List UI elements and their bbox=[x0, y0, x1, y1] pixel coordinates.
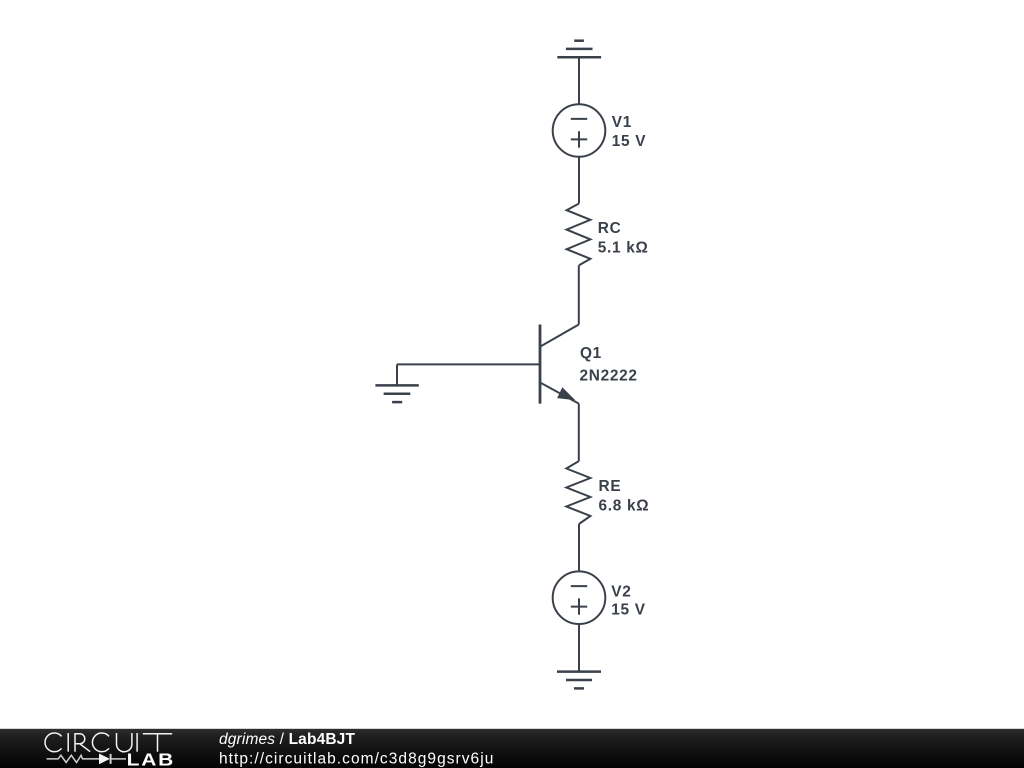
label V1 15 V bbox=[612, 114, 646, 150]
footer logo CIRCUIT wordmark bbox=[45, 733, 172, 752]
wire Q1 emitter to RE bbox=[578, 404, 580, 461]
wire top ground to V1 bbox=[578, 57, 580, 104]
Q1 emitter arrowhead bbox=[557, 387, 575, 400]
svg-text:5.1 kΩ: 5.1 kΩ bbox=[598, 240, 649, 257]
footer bar bbox=[0, 729, 1024, 768]
svg-text:V1: V1 bbox=[612, 114, 632, 131]
svg-text:Q1: Q1 bbox=[580, 345, 602, 362]
ground bottom (net GND) bbox=[557, 672, 601, 689]
wire RC to Q1 collector bbox=[578, 265, 580, 324]
label Q1 2N2222 bbox=[580, 345, 638, 385]
svg-text:RE: RE bbox=[599, 478, 622, 495]
svg-text:dgrimes / Lab4BJT: dgrimes / Lab4BJT bbox=[219, 731, 355, 748]
wire V1 to RC bbox=[578, 157, 580, 204]
svg-text:http://circuitlab.com/c3d8g9gs: http://circuitlab.com/c3d8g9gsrv6ju bbox=[219, 750, 494, 767]
voltage source V1 bbox=[553, 104, 606, 157]
resistor RC bbox=[567, 204, 591, 266]
resistor RE bbox=[566, 461, 590, 524]
transistor Q1 (NPN) bbox=[540, 325, 579, 404]
svg-text:V2: V2 bbox=[611, 584, 631, 601]
svg-text:LAB: LAB bbox=[127, 751, 176, 768]
label V2 15 V bbox=[611, 584, 645, 619]
ground left (base, net GND) bbox=[375, 385, 418, 402]
wire V2 to bottom ground bbox=[578, 624, 580, 672]
ground top (flipped, net GND) bbox=[557, 41, 601, 58]
svg-text:RC: RC bbox=[598, 220, 622, 237]
svg-text:6.8 kΩ: 6.8 kΩ bbox=[599, 498, 650, 515]
svg-text:15 V: 15 V bbox=[612, 133, 646, 150]
label RC 5.1 kOhm bbox=[598, 220, 649, 257]
voltage source V2 bbox=[553, 571, 606, 624]
label RE 6.8 kOhm bbox=[599, 478, 650, 515]
footer logo resistor-diode glyph bbox=[47, 754, 126, 764]
wire ground stub left bbox=[396, 364, 398, 385]
svg-text:15 V: 15 V bbox=[611, 601, 645, 618]
wire RE to V2 bbox=[578, 524, 580, 571]
svg-text:2N2222: 2N2222 bbox=[580, 368, 638, 385]
wire base to ground bbox=[397, 363, 540, 365]
